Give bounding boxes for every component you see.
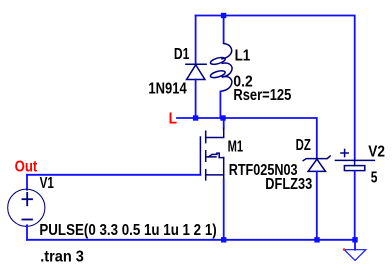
- junction V2/ground: [352, 237, 357, 242]
- diode D1: [186, 64, 206, 79]
- wire diode lower lead: [195, 80, 197, 119]
- svg-text:1N914: 1N914: [148, 80, 187, 97]
- wire V1 bottom lead: [26, 225, 28, 240]
- svg-text:DZ: DZ: [296, 137, 312, 154]
- wire zener upper lead: [316, 118, 318, 159]
- svg-text:.tran 3: .tran 3: [40, 248, 84, 265]
- wire V1 top lead: [26, 175, 28, 190]
- body stub: [205, 151, 207, 162]
- wire ground stub: [354, 240, 356, 250]
- battery V2: [335, 149, 374, 170]
- svg-text:L: L: [169, 110, 177, 127]
- body arrow: [206, 153, 224, 158]
- wire diode upper lead: [195, 16, 197, 65]
- svg-text:V1: V1: [40, 175, 55, 192]
- wire gate from V1: [27, 174, 200, 176]
- svg-text:PULSE(0 3.3 0.5 1u 1u 1 2 1): PULSE(0 3.3 0.5 1u 1u 1 2 1): [39, 222, 216, 239]
- source stub: [205, 170, 207, 180]
- wire L1 top lead: [223, 16, 225, 43]
- junction zener/bottom: [314, 237, 319, 242]
- ground red marker: [343, 248, 345, 250]
- svg-text:DFLZ33: DFLZ33: [265, 176, 312, 193]
- wire top rail: [196, 16, 355, 161]
- svg-text:D1: D1: [174, 46, 190, 63]
- wire drain stub: [223, 118, 225, 129]
- svg-text:L1: L1: [235, 48, 251, 65]
- wire bottom rail: [27, 239, 355, 241]
- ground: [344, 250, 366, 261]
- wire source down: [223, 180, 225, 240]
- zener diode DZ: [303, 156, 330, 171]
- mosfet M1: [200, 128, 223, 180]
- gate bar: [199, 137, 201, 175]
- junction top rail at L1: [221, 13, 226, 18]
- inductor L1: [210, 44, 232, 92]
- source bar: [223, 158, 225, 181]
- svg-text:V2: V2: [368, 144, 385, 161]
- svg-text:Rser=125: Rser=125: [233, 87, 291, 104]
- wire V2 bottom lead: [354, 171, 356, 240]
- source lead: [206, 174, 224, 176]
- node L junction at inductor/drain: [220, 115, 225, 120]
- drain stub: [205, 131, 207, 142]
- junction source/bottom: [221, 237, 226, 242]
- wire L1 bottom lead: [219, 92, 221, 119]
- svg-text:5: 5: [371, 170, 378, 187]
- wire zener lower lead: [316, 171, 318, 239]
- svg-text:M1: M1: [228, 139, 244, 156]
- svg-text:Out: Out: [15, 158, 38, 175]
- node L junction at diode: [193, 115, 198, 120]
- source V1: [8, 189, 45, 226]
- drain lead: [206, 128, 224, 137]
- wire node L horizontal: [177, 117, 317, 119]
